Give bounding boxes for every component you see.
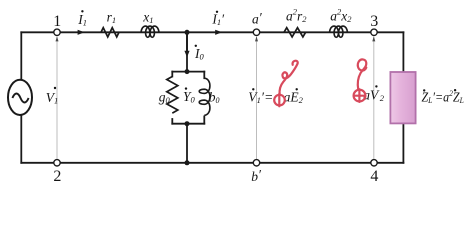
svg-text:4: 4 <box>370 168 378 185</box>
svg-text:ZL′=a2ZL: ZL′=a2ZL <box>422 88 465 105</box>
svg-text:V1′=: V1′= <box>248 90 273 106</box>
svg-text:2: 2 <box>53 168 61 185</box>
svg-text:a′: a′ <box>252 10 263 27</box>
svg-text:b′: b′ <box>251 167 262 184</box>
svg-text:3: 3 <box>370 13 378 30</box>
svg-text:1: 1 <box>53 13 61 30</box>
